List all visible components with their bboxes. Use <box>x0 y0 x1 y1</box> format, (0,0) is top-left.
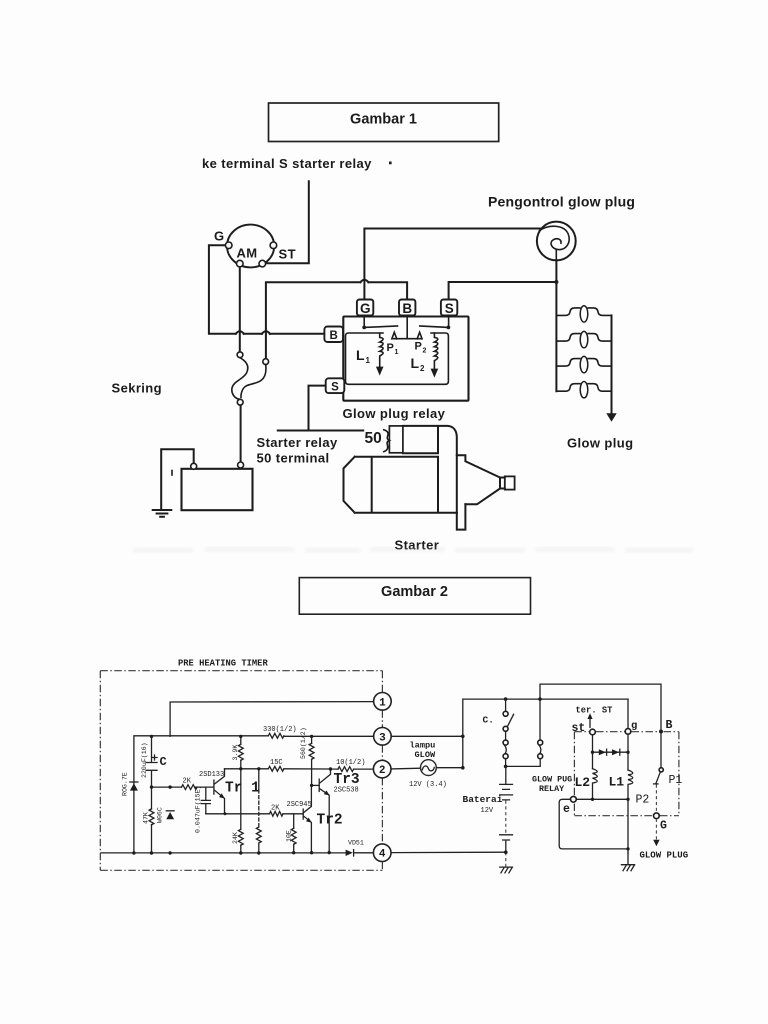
svg-text:Sekring: Sekring <box>112 381 162 396</box>
key switch terminal ST <box>270 242 277 249</box>
svg-text:L1: L1 <box>609 775 625 790</box>
svg-text:2: 2 <box>420 364 425 373</box>
relay S pin <box>448 316 450 328</box>
transistor Tr2 <box>303 785 312 852</box>
transistor Tr1 <box>214 769 225 814</box>
svg-text:2: 2 <box>423 348 427 355</box>
svg-text:24K: 24K <box>232 832 239 844</box>
glow plug bank ground arrow <box>606 413 616 422</box>
svg-text:L2: L2 <box>575 775 591 790</box>
svg-text:1: 1 <box>379 697 386 709</box>
bracket at starter 50 terminal <box>384 430 390 452</box>
svg-text:C.: C. <box>483 715 494 726</box>
rail E with resistor <box>256 769 261 853</box>
ter ST arrow <box>587 713 592 727</box>
svg-text:2K: 2K <box>271 805 280 813</box>
svg-text:Tr2: Tr2 <box>317 813 343 829</box>
relay terminal box B <box>399 300 415 317</box>
svg-text:B: B <box>402 301 412 316</box>
svg-text:2K: 2K <box>183 778 192 786</box>
timer junction dots <box>132 735 332 855</box>
terminal g <box>625 729 631 735</box>
svg-text:2: 2 <box>379 765 386 777</box>
terminal G <box>654 813 660 819</box>
ignition switch C. pole 1 <box>503 699 513 766</box>
wire: relay S-left terminal to starter 50 wire <box>278 386 363 431</box>
wire: e line and loop to ground rail <box>559 799 628 849</box>
svg-text:C: C <box>160 755 167 769</box>
resistor 47K on rail B <box>149 809 154 825</box>
wire: switch bottom-left terminal down to fuse 1 <box>239 267 241 352</box>
wire: Tr1 emitter rail to Tr2 base <box>206 813 303 815</box>
node circle 2 <box>373 760 391 778</box>
svg-text:e: e <box>563 803 570 816</box>
wire: bus to relay B terminal and down to fuse 2 <box>266 282 407 359</box>
wire: lamp down to glow plug rail <box>555 261 557 392</box>
rail D: resistor 3.9K <box>238 736 243 853</box>
resistor 10(1/2) to node 2 <box>338 767 354 772</box>
svg-text:ROG.7E: ROG.7E <box>122 772 129 796</box>
ground (battery negative) <box>153 510 172 517</box>
contact P1 <box>654 768 664 813</box>
svg-text:ke terminal S starter relay: ke terminal S starter relay <box>202 156 372 171</box>
svg-text:L: L <box>356 347 365 363</box>
wire: Tr1 base line from capacitor junction <box>152 786 214 788</box>
title box Gambar 1 <box>269 103 499 142</box>
svg-text:B: B <box>330 330 338 342</box>
relay G pin <box>363 316 365 328</box>
wire: B down to P1 contact <box>660 734 662 768</box>
svg-text:Starter relay: Starter relay <box>257 435 338 450</box>
resistor 10E on Tr2 base <box>291 814 296 853</box>
glow plug bank right rail <box>611 315 613 413</box>
svg-text:RELAY: RELAY <box>539 784 565 794</box>
svg-text:12V: 12V <box>481 807 494 815</box>
svg-text:2SD133: 2SD133 <box>199 771 224 779</box>
wire: node 4 to battery <box>391 851 506 853</box>
svg-text:Glow plug: Glow plug <box>567 436 633 451</box>
resistor 15C on collector line <box>268 766 284 771</box>
svg-text:50: 50 <box>365 430 382 447</box>
relay fixed contact bar right <box>420 326 449 327</box>
svg-text:3: 3 <box>379 732 386 744</box>
svg-text:50 terminal: 50 terminal <box>257 451 330 466</box>
starter mounting foot <box>457 504 466 529</box>
rail B capacitor column <box>151 736 153 853</box>
wire: battery negative to ground <box>161 449 194 509</box>
svg-text:4: 4 <box>379 849 386 861</box>
svg-text:P1: P1 <box>669 774 683 787</box>
svg-text:G: G <box>660 820 667 833</box>
ignition switch pole 2 <box>506 740 543 766</box>
diode pair between st and g <box>593 749 629 755</box>
relay fixed contact bar left <box>364 326 397 327</box>
coil L1 <box>628 770 633 853</box>
svg-text:st: st <box>572 722 586 735</box>
rail 560(1/2) to Tr3 base <box>309 736 314 785</box>
svg-text:220uF(16): 220uF(16) <box>141 742 148 778</box>
glow plug 2 <box>556 331 611 347</box>
scan ghost band <box>133 547 693 553</box>
svg-text:Tr 1: Tr 1 <box>225 781 260 797</box>
node circle 3 <box>374 728 392 746</box>
svg-text:S: S <box>445 301 454 316</box>
wire: battery positive up to fuse <box>240 405 242 462</box>
wire: timer bottom rail <box>101 852 373 854</box>
svg-text:L: L <box>411 355 420 371</box>
diode V06C on rail C <box>166 811 174 819</box>
svg-text:3.9K: 3.9K <box>232 745 239 761</box>
coil L2 <box>593 769 598 800</box>
svg-text:Gambar 1: Gambar 1 <box>350 112 417 128</box>
wire: ST terminal to "ke terminal S" <box>266 181 309 263</box>
capacitor polarity + <box>152 755 157 760</box>
relay coil L2 <box>431 333 439 378</box>
svg-text:lampu: lampu <box>410 741 436 751</box>
svg-text:0.047uF(15E): 0.047uF(15E) <box>195 786 202 833</box>
wire: lamp to vertical feed <box>436 767 463 769</box>
svg-text:GLOW PUG: GLOW PUG <box>532 775 572 785</box>
wire: g terminal drop <box>627 699 629 729</box>
title box Gambar 2 <box>299 578 530 615</box>
diode VD51 at node 4 <box>346 850 354 856</box>
wire: node 1 line to left rail C <box>170 702 374 737</box>
svg-text:PRE HEATING TIMER: PRE HEATING TIMER <box>178 659 268 669</box>
svg-text:ST: ST <box>279 247 296 262</box>
wire: G to glow plug arrow <box>653 819 659 846</box>
svg-text:P: P <box>387 342 394 354</box>
svg-text:G: G <box>214 229 225 244</box>
key switch terminal G <box>225 242 232 249</box>
svg-text:VD51: VD51 <box>348 840 364 847</box>
svg-text:G: G <box>360 301 371 316</box>
terminal st <box>590 729 596 735</box>
svg-text:P2: P2 <box>636 794 650 807</box>
lamp GLOW indicator <box>421 760 437 776</box>
svg-text:2SC538: 2SC538 <box>334 787 359 795</box>
glow plug 4 <box>556 382 611 398</box>
wire: relay S terminal to lamp junction <box>449 282 557 300</box>
svg-text:B: B <box>666 719 673 732</box>
wire: g down, coil L1, to ground <box>627 734 629 770</box>
starter motor body <box>344 457 457 513</box>
glow plug relay dashed box <box>574 732 679 816</box>
battery <box>172 462 253 510</box>
svg-text:AM: AM <box>237 246 258 261</box>
wire: st down through diode junction to L2 <box>592 735 594 769</box>
diode ROG.7E on rail A <box>130 782 138 791</box>
key switch bottom terminal 1 <box>237 260 244 267</box>
relay moving contact P1 <box>392 332 397 339</box>
fuse 1 (fusible link) <box>232 352 248 399</box>
svg-text:47K: 47K <box>143 812 150 824</box>
starter solenoid <box>389 426 456 455</box>
relay left terminal S <box>326 378 345 393</box>
svg-text:330(1/2): 330(1/2) <box>263 726 297 734</box>
relay coil L1 <box>376 333 384 376</box>
svg-text:Baterai: Baterai <box>463 794 503 805</box>
svg-text:Pengontrol glow plug: Pengontrol glow plug <box>488 194 635 210</box>
svg-text:560(1/2): 560(1/2) <box>300 727 307 759</box>
terminal e <box>571 796 577 802</box>
relay inner frame <box>346 333 449 384</box>
svg-text:GLOW: GLOW <box>415 750 436 760</box>
transistor Tr3 <box>312 769 331 853</box>
svg-text:W06C: W06C <box>157 807 164 823</box>
svg-text:Gambar 2: Gambar 2 <box>381 584 448 600</box>
starter drive housing and shaft <box>457 455 515 513</box>
capacitor 0.047uF on Tr1 base <box>201 787 210 814</box>
relay terminal box G <box>357 300 373 317</box>
resistor 2K (Tr2 base) <box>270 811 283 816</box>
node circle 4 <box>373 844 391 862</box>
label: ke terminal S starter relay <box>202 156 392 171</box>
wire: node 3 to lamp junction vertical <box>391 735 463 737</box>
resistor 2K (Tr1 base) <box>182 785 198 790</box>
glow plug 1 <box>556 306 611 322</box>
wire: branch up to B feed <box>540 684 661 742</box>
glow plug 3 <box>556 356 611 372</box>
fuse bottom terminal <box>237 399 243 405</box>
battery Baterai <box>500 766 513 873</box>
wire: node 2 to lamp <box>391 767 421 770</box>
relay left terminal B <box>324 327 343 343</box>
svg-text:GLOW PLUG: GLOW PLUG <box>640 851 689 861</box>
wire: vertical feed and top distribution <box>463 699 628 768</box>
node circle 1 <box>374 693 392 711</box>
relay ground <box>621 853 634 871</box>
ignition key switch body <box>227 225 274 268</box>
relay terminal box S <box>441 300 457 317</box>
pengontrol glow plug indicator <box>537 222 576 261</box>
relay moving contact P2 <box>417 332 422 339</box>
svg-text:g: g <box>631 720 637 732</box>
junction: lamp wire and S wire <box>554 280 558 284</box>
svg-text:ter. ST: ter. ST <box>576 706 614 716</box>
junction: battery top <box>504 765 508 769</box>
resistor 330(1/2) on bus 3 <box>268 733 284 738</box>
svg-text:10E: 10E <box>286 830 293 842</box>
svg-text:Glow plug relay: Glow plug relay <box>343 406 446 421</box>
svg-text:2SC945: 2SC945 <box>287 801 312 809</box>
svg-text:P: P <box>415 341 422 353</box>
svg-text:1: 1 <box>366 356 371 365</box>
svg-text:12V (3.4): 12V (3.4) <box>409 781 447 789</box>
key switch bottom terminal 2 <box>259 260 266 267</box>
svg-text:15C: 15C <box>270 759 283 767</box>
relay B pin <box>394 316 422 339</box>
fuse 2 (fusible link) <box>241 359 269 398</box>
svg-text:10(1/2): 10(1/2) <box>336 759 365 767</box>
pre heating timer dashed border <box>100 671 382 871</box>
wire: collector line y=768.8 <box>225 768 374 770</box>
wire: G terminal down and bus to relay left B terminal <box>209 245 325 333</box>
svg-text:1: 1 <box>395 349 399 356</box>
svg-text:S: S <box>331 381 339 393</box>
glow plug relay outer box <box>343 317 468 401</box>
wire: bus 3 <box>134 736 374 853</box>
junction dots top <box>504 697 508 701</box>
label Starter relay / 50 terminal <box>257 435 338 466</box>
terminal B junction <box>659 730 663 734</box>
capacitor C 220uF plates <box>146 763 157 771</box>
wire: relay G terminal up and right to pengontrol lamp <box>364 229 542 300</box>
